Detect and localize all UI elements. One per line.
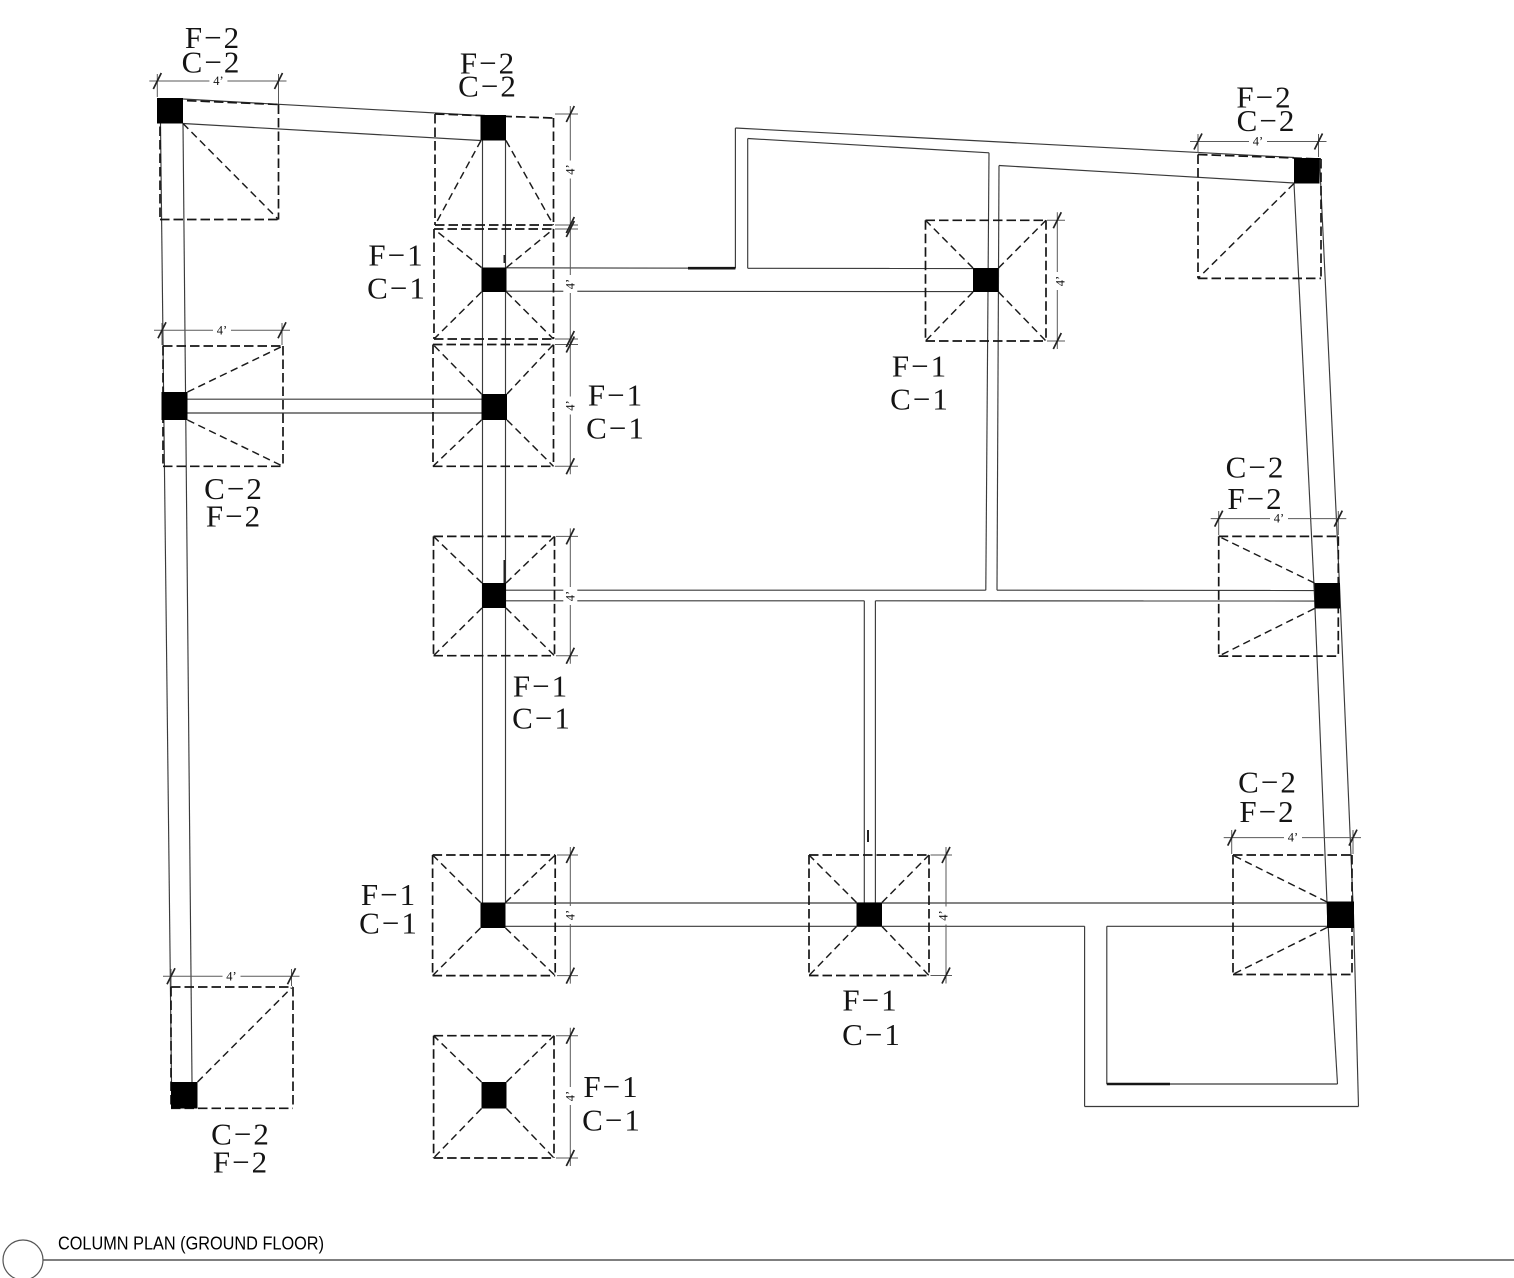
svg-text:4’: 4’ bbox=[217, 323, 227, 337]
svg-text:4’: 4’ bbox=[563, 164, 577, 174]
svg-text:4’: 4’ bbox=[563, 279, 577, 289]
svg-text:4’: 4’ bbox=[937, 910, 951, 920]
svg-text:F−1: F−1 bbox=[583, 1069, 639, 1104]
svg-text:4’: 4’ bbox=[1054, 276, 1068, 286]
svg-text:C−2: C−2 bbox=[1237, 103, 1297, 138]
svg-text:C−1: C−1 bbox=[359, 906, 419, 941]
svg-text:F−2: F−2 bbox=[213, 1145, 269, 1180]
svg-text:C−1: C−1 bbox=[842, 1017, 902, 1052]
svg-text:F−1: F−1 bbox=[842, 983, 898, 1018]
svg-text:4’: 4’ bbox=[1288, 831, 1298, 845]
svg-text:C−2: C−2 bbox=[1226, 450, 1286, 485]
svg-text:COLUMN PLAN (GROUND FLOOR): COLUMN PLAN (GROUND FLOOR) bbox=[58, 1233, 324, 1254]
svg-text:F−2: F−2 bbox=[1227, 481, 1283, 516]
svg-text:C−1: C−1 bbox=[582, 1102, 642, 1137]
svg-text:F−1: F−1 bbox=[513, 669, 569, 704]
svg-text:C−1: C−1 bbox=[586, 411, 646, 446]
svg-text:4’: 4’ bbox=[563, 400, 577, 410]
svg-text:4’: 4’ bbox=[563, 1091, 577, 1101]
svg-text:4’: 4’ bbox=[563, 591, 577, 601]
svg-text:C−2: C−2 bbox=[182, 45, 242, 80]
svg-text:4’: 4’ bbox=[563, 910, 577, 920]
svg-text:4’: 4’ bbox=[226, 969, 236, 983]
svg-text:C−1: C−1 bbox=[367, 271, 427, 306]
svg-text:F−1: F−1 bbox=[588, 378, 644, 413]
svg-text:F−2: F−2 bbox=[1239, 794, 1295, 829]
svg-text:C−1: C−1 bbox=[512, 701, 572, 736]
svg-text:F−1: F−1 bbox=[892, 349, 948, 384]
svg-text:C−2: C−2 bbox=[458, 69, 518, 104]
svg-text:C−1: C−1 bbox=[890, 382, 950, 417]
svg-text:F−1: F−1 bbox=[368, 238, 424, 273]
svg-text:F−2: F−2 bbox=[206, 499, 262, 534]
